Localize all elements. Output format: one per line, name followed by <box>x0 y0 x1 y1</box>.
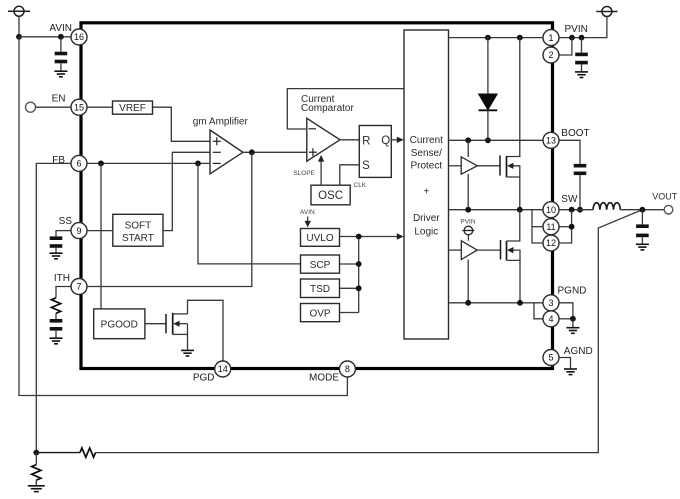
wire gm output to current comparator + input <box>243 151 307 153</box>
svg-text:AVIN: AVIN <box>49 23 72 34</box>
transistor Q3 (PGOOD open-drain) <box>166 313 188 350</box>
svg-text:SS: SS <box>59 216 73 227</box>
node BOOT driver supply tap <box>465 137 471 143</box>
ground (SS cap) <box>50 253 63 259</box>
buffer high-side gate driver <box>461 157 477 174</box>
block TSD <box>301 279 340 298</box>
node low-side source on PGND <box>517 300 523 306</box>
wire PGND internal rail to pin 3 <box>449 302 544 304</box>
block VREF <box>113 101 153 114</box>
wire driver logic to low-side driver input <box>449 249 462 251</box>
wire pins 11-12 external tie <box>559 210 574 243</box>
label SLOPE <box>293 170 315 177</box>
svg-text:OSC: OSC <box>318 190 343 202</box>
wire diode anode <box>487 38 489 94</box>
label PGND <box>558 286 587 297</box>
pin 9 SS <box>71 223 87 239</box>
capacitor C2 (PVIN bypass) <box>575 38 588 72</box>
wire pin 9 to SOFT START <box>87 230 113 232</box>
wire UVLO output arrow into driver logic <box>340 233 404 239</box>
pin 8 MODE <box>339 361 355 377</box>
transistor Q1 (high-side NMOS) <box>500 155 520 209</box>
node AVIN cap tap <box>58 34 64 40</box>
svg-text:16: 16 <box>74 32 84 42</box>
pin 13 BOOT <box>543 132 559 148</box>
wire SCP output <box>340 261 362 267</box>
wire FB node to R1 <box>36 452 80 454</box>
wire PGOOD gate drive <box>145 323 166 325</box>
capacitor C1 (AVIN bypass) <box>55 52 68 71</box>
label AGND <box>564 346 593 357</box>
pin 3 PGND <box>543 295 559 311</box>
node gm output / ITH <box>249 149 255 155</box>
svg-text:4: 4 <box>548 314 553 324</box>
svg-text:Driver: Driver <box>413 213 440 224</box>
label AVIN <box>49 23 72 34</box>
capacitor C4 (output) <box>636 210 649 244</box>
svg-text:FB: FB <box>52 155 65 166</box>
pin 6 FB <box>71 155 87 171</box>
node PVIN pin2 tie <box>569 35 575 41</box>
ground (AVIN cap) <box>54 71 67 77</box>
label VOUT <box>652 191 678 201</box>
flip-flop RS latch <box>359 126 391 178</box>
wire comparator output to latch R <box>340 139 359 141</box>
resistor R1 (feedback top) <box>80 448 96 457</box>
ground (output cap) <box>636 244 649 250</box>
terminal PVIN supply symbol <box>462 226 474 241</box>
transistor Q2 (low-side NMOS) <box>501 210 521 303</box>
pin 11 SW <box>543 219 559 235</box>
node driver return on PGND <box>465 300 471 306</box>
node driver return on SW <box>465 207 471 213</box>
wire current sense signal to comparator - input <box>287 89 404 129</box>
terminal EN (open circle input) <box>26 102 36 112</box>
label SS <box>59 216 73 227</box>
wire BOOT internal rail to pin 13 <box>449 139 544 141</box>
pin 2 PVIN <box>543 47 559 63</box>
svg-text:SW: SW <box>561 194 578 205</box>
wire SW pins 10-11-12 internal tie <box>532 210 544 243</box>
svg-text:MODE: MODE <box>309 372 339 383</box>
svg-text:SOFT: SOFT <box>125 221 152 232</box>
svg-text:9: 9 <box>76 226 81 236</box>
wire SW pin 10 to inductor <box>559 209 593 211</box>
inductor L1 <box>593 203 620 210</box>
svg-text:Comparator: Comparator <box>301 103 354 114</box>
node phase node junction <box>517 207 523 213</box>
label FB <box>52 155 65 166</box>
wire low-side driver return to PGND <box>467 260 469 303</box>
wire SLOPE ramp from OSC to comparator + input (arrow up) <box>318 155 324 185</box>
svg-text:SLOPE: SLOPE <box>293 170 315 177</box>
wire pin 2 external tie <box>559 38 572 55</box>
IC package outline <box>81 23 553 369</box>
svg-text:Current: Current <box>410 135 444 146</box>
svg-text:Protect: Protect <box>410 161 442 172</box>
diode D1 (bootstrap) <box>479 94 498 110</box>
svg-text:gm Amplifier: gm Amplifier <box>193 116 249 127</box>
op-amp gm Amplifier <box>210 130 243 174</box>
terminal PVIN (top-right supply input) <box>596 7 617 17</box>
wire feedback from VOUT: diagonal, right-side drop and bottom run to R1 <box>96 210 643 453</box>
pin 10 SW <box>543 202 559 218</box>
ground (PGOOD source) <box>181 350 194 356</box>
svg-text:PGND: PGND <box>558 286 587 297</box>
block OVP <box>301 304 340 322</box>
svg-text:OVP: OVP <box>309 308 330 319</box>
wire SS pin 9 left to cap <box>56 231 71 237</box>
terminal VOUT <box>664 205 673 214</box>
wire PVIN internal rail to pin 1 <box>449 37 544 39</box>
node bootstrap cap on SW <box>577 207 583 213</box>
svg-text:ITH: ITH <box>54 273 70 284</box>
pin 12 SW <box>543 235 559 251</box>
label PVIN (low-side driver supply) <box>460 219 475 226</box>
svg-text:Sense/: Sense/ <box>411 148 442 159</box>
svg-text:CLK: CLK <box>354 182 367 189</box>
wire VIN rail down left side to MODE <box>19 37 347 396</box>
label BOOT <box>561 128 589 139</box>
svg-text:2: 2 <box>548 50 553 60</box>
label CLK <box>354 182 367 189</box>
svg-text:VREF: VREF <box>119 103 146 114</box>
svg-text:12: 12 <box>546 238 556 248</box>
label gm Amplifier <box>193 116 249 127</box>
wire high-side drain from PVIN <box>507 38 520 157</box>
comparator current comparator <box>307 118 340 161</box>
svg-text:Logic: Logic <box>414 226 438 237</box>
wire AVIN node to pin 16 <box>19 36 71 38</box>
node FB branch to SCP <box>195 161 201 167</box>
label Current Comparator <box>301 94 354 114</box>
label MODE <box>309 372 339 383</box>
svg-text:5: 5 <box>548 353 553 363</box>
wire PGOOD drain to pin 14 <box>188 300 224 361</box>
svg-text:7: 7 <box>76 282 81 292</box>
node FB branch to PGOOD <box>98 161 104 167</box>
node AVIN junction <box>16 34 22 40</box>
wire driver logic to high-side driver input <box>449 165 462 167</box>
label AVIN (UVLO supply) <box>300 209 315 216</box>
block Current Sense/Protect + Driver Logic <box>404 30 449 339</box>
block UVLO <box>301 229 340 247</box>
node VOUT junction <box>640 207 646 213</box>
wire SW internal rail to pin 10 <box>449 209 544 211</box>
wire PGND pins 3-4 external tie <box>559 303 576 327</box>
svg-text:R: R <box>362 136 370 148</box>
svg-text:6: 6 <box>76 159 81 169</box>
node high-side drain tap <box>517 35 523 41</box>
block SOFT START <box>113 214 163 246</box>
ground (feedback divider) <box>28 486 45 492</box>
pin 14 PGD <box>215 361 231 377</box>
wire FB line pin 6 to gm amplifier - input <box>87 162 210 164</box>
wire OVP output <box>340 312 359 314</box>
wire inductor to VOUT <box>620 209 664 211</box>
svg-text:15: 15 <box>74 102 84 112</box>
pin 15 EN <box>71 99 87 115</box>
ground (PVIN cap) <box>575 72 588 78</box>
svg-text:BOOT: BOOT <box>561 128 589 139</box>
ground (AGND) <box>564 369 577 375</box>
node diode cathode junction <box>485 137 491 143</box>
svg-text:11: 11 <box>546 222 555 232</box>
wire AVIN arrow into UVLO <box>305 217 311 228</box>
wire protection merge vertical <box>358 237 360 313</box>
pin 4 PGND <box>543 311 559 327</box>
node diode anode tap <box>485 35 491 41</box>
svg-text:AGND: AGND <box>564 346 593 357</box>
label PGD <box>193 373 215 384</box>
pin 1 PVIN <box>543 30 559 46</box>
node UVLO merge <box>356 234 362 240</box>
wire VREF to gm amplifier + input <box>153 107 211 141</box>
ground (PGND) <box>566 328 579 334</box>
svg-text:PGOOD: PGOOD <box>101 320 138 331</box>
wire high-side gate <box>477 165 500 167</box>
wire pin 15 to VREF <box>87 106 113 108</box>
wire OSC CLK to latch S input <box>340 165 360 185</box>
svg-text:14: 14 <box>218 364 228 374</box>
block SCP <box>301 255 340 273</box>
resistor R3 (ITH compensation) <box>51 298 60 313</box>
svg-text:8: 8 <box>345 364 350 374</box>
label SW <box>561 194 578 205</box>
capacitor C3 (bootstrap) <box>574 164 587 210</box>
svg-text:TSD: TSD <box>310 284 330 295</box>
svg-text:START: START <box>122 233 154 244</box>
svg-text:PVIN: PVIN <box>565 24 588 35</box>
svg-text:PVIN: PVIN <box>460 219 475 226</box>
wire R3 to C6 <box>55 313 57 319</box>
wire BOOT pin 13 to bootstrap cap <box>559 140 580 164</box>
buffer low-side gate driver <box>461 241 477 260</box>
svg-text:S: S <box>362 160 370 172</box>
wire ITH pin 7 left to compensation network <box>56 287 71 298</box>
wire SOFT START output to gm amplifier middle input <box>163 152 210 230</box>
node PVIN cap tap <box>579 35 585 41</box>
wire FB pin 6 left and down to divider <box>36 163 71 452</box>
node SW pins 11-12 external tie <box>569 207 575 213</box>
svg-text:SCP: SCP <box>310 260 331 271</box>
wire BOOT supply into high-side driver <box>467 140 469 209</box>
svg-text:VOUT: VOUT <box>652 191 678 201</box>
label EN <box>52 93 66 104</box>
wire PVIN terminal to pins 1-2 <box>559 17 607 38</box>
node FB divider junction <box>33 450 39 456</box>
wire TSD output <box>340 285 362 291</box>
wire FB down to PGOOD <box>100 163 102 309</box>
capacitor C6 (ITH compensation) <box>50 319 63 338</box>
label ITH <box>54 273 70 284</box>
block OSC <box>311 185 350 205</box>
svg-text:1: 1 <box>548 33 553 43</box>
pin 7 ITH <box>71 279 87 295</box>
wire PGND pins 3-4 internal tie <box>534 303 543 319</box>
wire AVIN cap stub <box>60 37 62 52</box>
svg-text:AVIN: AVIN <box>300 209 315 216</box>
wire AGND pin 5 to ground <box>559 358 571 369</box>
wire VIN terminal down to AVIN node <box>18 16 20 37</box>
block PGOOD <box>94 309 145 339</box>
wire EN to pin 15 <box>36 106 72 108</box>
wire latch Q output arrow into driver logic <box>391 137 404 143</box>
wire diode cathode to BOOT rail <box>487 110 489 140</box>
capacitor C5 (soft-start) <box>50 236 63 252</box>
svg-text:UVLO: UVLO <box>306 233 333 244</box>
resistor R2 (feedback bottom) <box>32 453 41 486</box>
svg-text:Q: Q <box>381 135 390 147</box>
svg-text:EN: EN <box>52 93 66 104</box>
ground (ITH network) <box>50 338 63 344</box>
label PVIN <box>565 24 588 35</box>
pin 16 AVIN <box>71 29 87 45</box>
wire FB down to SCP input <box>198 163 301 264</box>
svg-text:10: 10 <box>546 205 556 215</box>
svg-text:13: 13 <box>546 136 556 146</box>
wire ITH compensation node down and left to pin 7 <box>87 152 252 286</box>
terminal VIN (top-left supply input) <box>8 6 30 16</box>
pin 5 AGND <box>543 350 559 366</box>
wire low-side gate <box>477 249 500 251</box>
svg-text:3: 3 <box>548 298 553 308</box>
svg-text:+: + <box>423 187 429 198</box>
svg-text:PGD: PGD <box>193 373 215 384</box>
